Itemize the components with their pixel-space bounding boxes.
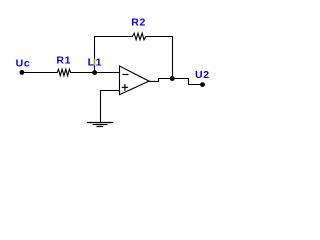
- svg-text:L: L: [88, 57, 95, 69]
- svg-text:1: 1: [96, 57, 103, 69]
- svg-text:U2: U2: [195, 69, 210, 81]
- svg-text:R2: R2: [131, 17, 146, 29]
- svg-text:Uc: Uc: [16, 57, 31, 69]
- svg-text:R1: R1: [56, 55, 71, 67]
